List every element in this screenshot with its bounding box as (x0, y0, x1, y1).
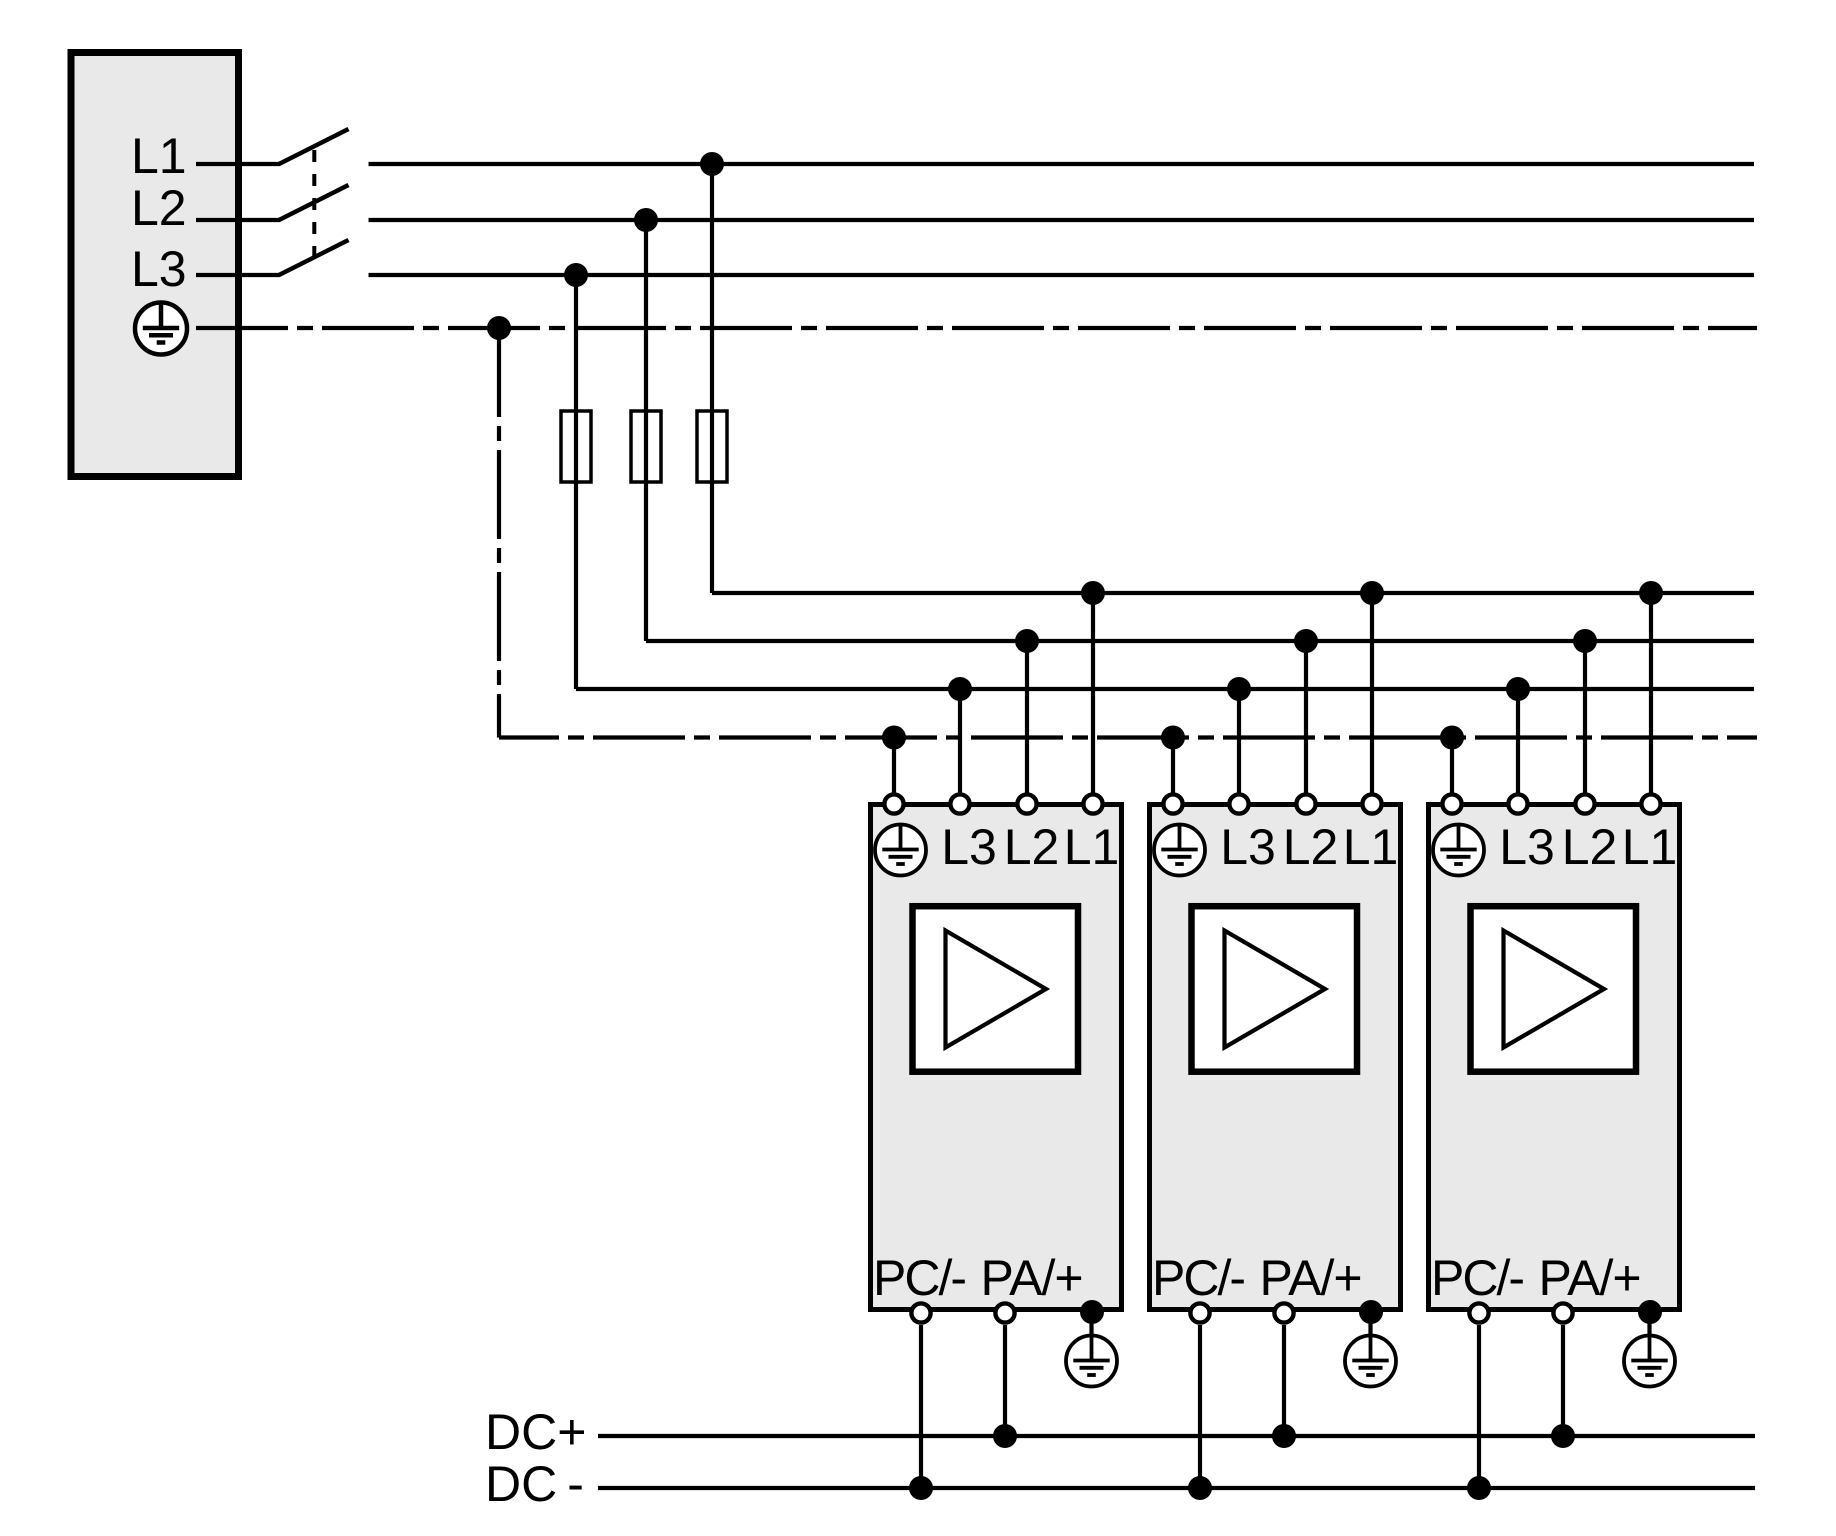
svg-text:DC -: DC - (485, 1456, 584, 1512)
switch Q1 blade L1 (279, 129, 349, 164)
wire drive3 L2 drop (1583, 641, 1587, 806)
wire bus L2 (top tier) (369, 218, 1755, 222)
amplifier symbol drive1 frame (913, 906, 1079, 1071)
wire drive3 PA/+ drop to DC+ (1561, 1325, 1565, 1436)
wire bus L3 (top tier) (369, 273, 1755, 277)
wire drive1 L2 drop (1025, 641, 1029, 806)
switch Q1 linkage (dashed) (312, 150, 316, 259)
drive U3 body (1429, 805, 1680, 1310)
node drive3 L3 tap junction (1506, 677, 1530, 701)
terminal drive3 PE (bottom, node) (1638, 1300, 1662, 1324)
node drive2 junction on DC+ (1272, 1424, 1296, 1448)
terminal drive3 PC/- (bottom) (1469, 1303, 1488, 1322)
amplifier symbol drive2 frame (1192, 906, 1358, 1071)
terminal drive1 L3 (top) (950, 794, 969, 813)
terminal drive1 L1 (top) (1083, 794, 1102, 813)
wire L2 supply to switch pole (196, 218, 280, 222)
wire bus L3 (second tier) (576, 687, 1754, 691)
node drive1 junction on DC- (909, 1476, 933, 1500)
wire drive1 PC/- drop to DC- (919, 1325, 923, 1488)
svg-text:L1: L1 (1064, 819, 1120, 875)
node drive2 L1 tap junction (1360, 581, 1384, 605)
protective earth symbol (supply) (135, 303, 187, 355)
wire drive2 L2 drop (1304, 641, 1308, 806)
wire drive3 L1 drop (1649, 593, 1653, 806)
node drive3 junction on DC+ (1551, 1424, 1575, 1448)
node L3 tap junction (564, 263, 588, 287)
wire drive3 PC/- drop to DC- (1477, 1325, 1481, 1488)
protective earth symbol drive3 (bottom) (1624, 1336, 1675, 1387)
terminal drive3 PA/+ (bottom) (1553, 1303, 1572, 1322)
svg-text:L3: L3 (941, 819, 997, 875)
terminal drive3 L1 (top) (1641, 794, 1660, 813)
wire bus L2 (second tier) (646, 639, 1754, 643)
drive U1 body (871, 805, 1122, 1310)
protective earth symbol drive1 (bottom) (1066, 1336, 1117, 1387)
terminal drive2 L3 (top) (1229, 794, 1248, 813)
terminal drive2 L1 (top) (1362, 794, 1381, 813)
svg-text:PA/+: PA/+ (1538, 1250, 1640, 1306)
wire drive1 L3 drop (958, 689, 962, 806)
protective earth symbol drive3 (top) (1433, 825, 1484, 876)
node drive1 PE tap junction (882, 726, 906, 750)
node drive1 junction on DC+ (993, 1424, 1017, 1448)
svg-text:PA/+: PA/+ (1259, 1250, 1361, 1306)
node drive2 L3 tap junction (1227, 677, 1251, 701)
drive U2 body (1150, 805, 1401, 1310)
wire feeder L1 vertical (710, 164, 714, 593)
node drive1 L1 tap junction (1081, 581, 1105, 605)
amplifier symbol drive3 triangle (1504, 931, 1605, 1048)
terminal drive3 L3 (top) (1508, 794, 1527, 813)
wire L1 supply to switch pole (196, 162, 280, 166)
node drive3 L2 tap junction (1573, 629, 1597, 653)
svg-text:L1: L1 (131, 128, 187, 184)
node drive2 L2 tap junction (1294, 629, 1318, 653)
wire bus L1 (top tier) (369, 162, 1755, 166)
wire drive3 PE pigtail (1647, 1312, 1651, 1337)
protective earth symbol drive2 (bottom) (1345, 1336, 1396, 1387)
svg-text:PC/-: PC/- (873, 1250, 965, 1306)
wire drive3 L3 drop (1516, 689, 1520, 806)
fuse F3 (697, 411, 727, 482)
terminal drive1 PE (top) (884, 794, 903, 813)
svg-text:DC+: DC+ (485, 1404, 586, 1460)
wire drive2 L1 drop (1370, 593, 1374, 806)
wire drive1 PE drop (892, 738, 896, 807)
wire bus DC+ (598, 1434, 1755, 1438)
svg-text:L3: L3 (1499, 819, 1555, 875)
terminal drive1 L2 (top) (1017, 794, 1036, 813)
terminal drive3 PE (top) (1442, 794, 1461, 813)
protective earth symbol drive2 (top) (1154, 825, 1205, 876)
node drive3 L1 tap junction (1639, 581, 1663, 605)
svg-text:L1: L1 (1343, 819, 1399, 875)
terminal drive1 PA/+ (bottom) (995, 1303, 1014, 1322)
amplifier symbol drive2 triangle (1225, 931, 1326, 1048)
wire feeder PE vertical (dash-dot) (497, 328, 501, 738)
terminal drive3 L2 (top) (1575, 794, 1594, 813)
wire bus DC- (598, 1486, 1755, 1490)
terminal drive2 PA/+ (bottom) (1274, 1303, 1293, 1322)
svg-text:L3: L3 (131, 241, 187, 297)
amplifier symbol drive3 frame (1471, 906, 1637, 1071)
terminal drive1 PC/- (bottom) (911, 1303, 930, 1322)
switch Q1 blade L2 (279, 185, 349, 220)
terminal drive1 PE (bottom, node) (1080, 1300, 1104, 1324)
svg-text:L2: L2 (1562, 819, 1618, 875)
switch Q1 blade L3 (279, 240, 349, 275)
fuse F1 (561, 411, 591, 482)
wire drive3 PE drop (1450, 738, 1454, 807)
wire drive2 L3 drop (1237, 689, 1241, 806)
node L1 tap junction (700, 152, 724, 176)
svg-text:PA/+: PA/+ (980, 1250, 1082, 1306)
svg-text:PC/-: PC/- (1152, 1250, 1244, 1306)
node drive3 junction on DC- (1467, 1476, 1491, 1500)
node drive1 L3 tap junction (948, 677, 972, 701)
amplifier symbol drive1 triangle (946, 931, 1047, 1048)
wire drive2 PA/+ drop to DC+ (1282, 1325, 1286, 1436)
supply box (71, 53, 239, 477)
wire bus PE (second tier, dash-dot) (499, 735, 1757, 739)
wire bus L1 (second tier) (712, 591, 1754, 595)
wire drive1 PA/+ drop to DC+ (1003, 1325, 1007, 1436)
terminal drive2 L2 (top) (1296, 794, 1315, 813)
svg-text:PC/-: PC/- (1431, 1250, 1523, 1306)
node PE tap junction (487, 316, 511, 340)
svg-text:L2: L2 (131, 180, 187, 236)
fuse F2 (631, 411, 661, 482)
svg-text:L2: L2 (1004, 819, 1060, 875)
wire drive2 PE pigtail (1368, 1312, 1372, 1337)
terminal drive2 PE (bottom, node) (1359, 1300, 1383, 1324)
node drive2 PE tap junction (1161, 726, 1185, 750)
terminal drive2 PE (top) (1163, 794, 1182, 813)
wire drive1 PE pigtail (1089, 1312, 1093, 1337)
wire bus PE (top tier, dash-dot) (196, 326, 1757, 330)
node drive1 L2 tap junction (1015, 629, 1039, 653)
node drive3 PE tap junction (1440, 726, 1464, 750)
svg-text:L2: L2 (1283, 819, 1339, 875)
wire feeder L3 vertical (574, 275, 578, 689)
protective earth symbol drive1 (top) (875, 825, 926, 876)
terminal drive2 PC/- (bottom) (1190, 1303, 1209, 1322)
node L2 tap junction (634, 208, 658, 232)
wire feeder L2 vertical (644, 220, 648, 641)
wire drive1 L1 drop (1091, 593, 1095, 806)
svg-text:L3: L3 (1220, 819, 1276, 875)
wire drive2 PC/- drop to DC- (1198, 1325, 1202, 1488)
node drive2 junction on DC- (1188, 1476, 1212, 1500)
wire drive2 PE drop (1171, 738, 1175, 807)
wire L3 supply to switch pole (196, 273, 280, 277)
svg-text:L1: L1 (1622, 819, 1678, 875)
